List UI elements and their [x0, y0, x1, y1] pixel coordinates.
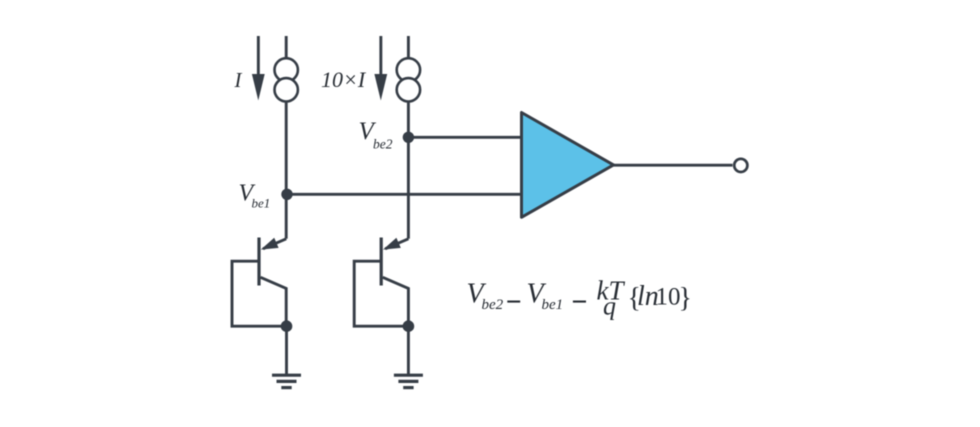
current arrow 10xI — [374, 36, 387, 101]
wire right branch middle — [407, 101, 410, 239]
ground left — [272, 375, 301, 387]
output terminal — [734, 159, 747, 172]
svg-text:be2: be2 — [373, 136, 393, 151]
ground right — [394, 375, 423, 387]
transistor Q1 — [259, 238, 286, 327]
svg-text:I: I — [234, 68, 243, 92]
transistor Q1 emitter arrow — [261, 238, 279, 250]
wire Q1 to ground — [285, 326, 288, 374]
wire Q2 base feedback — [354, 261, 408, 326]
svg-text:10×I: 10×I — [321, 67, 367, 92]
wire Q1 base feedback — [232, 261, 287, 326]
value label formula Vbe2 - Vbe1 - kT/q ln10 — [467, 276, 692, 321]
wire Q2 to ground — [407, 326, 410, 374]
current source I2 — [397, 58, 420, 101]
current arrow I — [252, 36, 265, 101]
transistor Q1 base bar — [257, 238, 260, 286]
node Vbe2 wire to op-amp — [408, 136, 521, 139]
node Vbe1 wire to op-amp — [287, 193, 522, 196]
transistor Q2 — [381, 238, 408, 327]
svg-text:}: } — [679, 283, 692, 314]
wire left branch middle — [285, 101, 288, 239]
node Vbe1 junction dot — [281, 189, 292, 200]
transistor Q2 base bar — [380, 238, 383, 286]
svg-text:be1: be1 — [252, 196, 271, 211]
svg-text:be2: be2 — [482, 297, 504, 313]
svg-text:10: 10 — [656, 283, 681, 310]
op-amp U1 — [522, 113, 614, 218]
svg-text:q: q — [603, 292, 616, 321]
wire right branch top — [407, 36, 410, 59]
node Q1 output junction dot — [281, 320, 293, 332]
node Q2 output junction dot — [403, 320, 415, 332]
transistor Q1 emitter lead — [263, 239, 286, 249]
node Vbe2 junction dot — [403, 132, 414, 143]
svg-text:be1: be1 — [542, 297, 564, 313]
wire left branch top — [285, 36, 288, 59]
transistor Q2 emitter arrow — [383, 238, 401, 250]
transistor Q2 collector lead — [383, 277, 409, 326]
wire op-amp output — [614, 164, 733, 167]
current source I1 — [275, 58, 298, 101]
transistor Q2 emitter lead — [385, 239, 408, 249]
transistor Q1 collector lead — [261, 277, 287, 326]
